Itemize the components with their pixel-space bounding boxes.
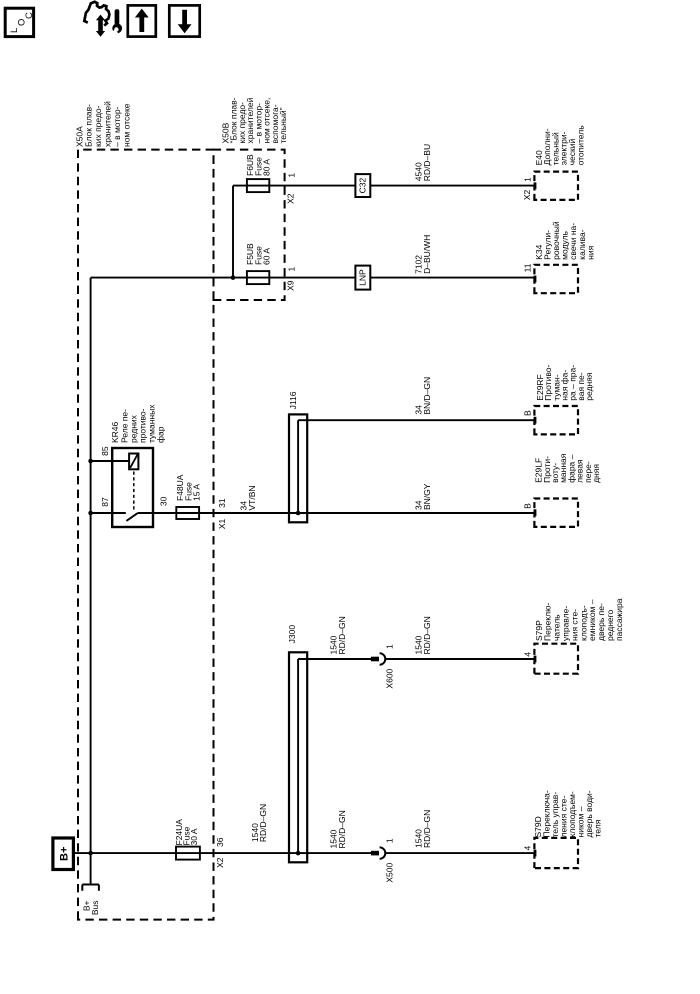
svg-text:X2: X2: [286, 193, 296, 204]
svg-text:Bus: Bus: [90, 901, 100, 916]
svg-text:J116: J116: [288, 391, 298, 409]
svg-text:тельный": тельный": [278, 107, 288, 143]
svg-text:C: C: [24, 12, 35, 19]
svg-text:11: 11: [523, 263, 533, 272]
svg-text:пассажира: пассажира: [614, 598, 624, 641]
svg-text:RD/D–GN: RD/D–GN: [422, 616, 432, 654]
svg-text:1: 1: [286, 267, 296, 272]
svg-text:1: 1: [385, 838, 395, 843]
svg-text:80 A: 80 A: [262, 159, 272, 176]
svg-text:RD/D–GN: RD/D–GN: [422, 810, 432, 848]
svg-text:60 A: 60 A: [262, 248, 272, 265]
svg-text:B: B: [523, 410, 533, 416]
svg-text:RD/D–GN: RD/D–GN: [337, 616, 347, 654]
svg-text:B: B: [523, 503, 533, 509]
svg-text:87: 87: [100, 497, 110, 507]
svg-text:B+: B+: [58, 847, 70, 861]
svg-text:31: 31: [217, 498, 227, 508]
svg-text:ния: ния: [585, 245, 595, 259]
svg-text:D–BU/WH: D–BU/WH: [422, 235, 432, 274]
svg-text:VT/BN: VT/BN: [247, 485, 257, 510]
svg-text:RD/D–GN: RD/D–GN: [258, 804, 268, 842]
svg-text:RD/D–BU: RD/D–BU: [422, 144, 432, 181]
svg-text:L: L: [9, 28, 20, 33]
svg-text:RD/D–GN: RD/D–GN: [337, 810, 347, 848]
svg-text:дняя: дняя: [591, 464, 601, 483]
svg-text:X9: X9: [286, 280, 296, 291]
svg-text:30 A: 30 A: [189, 828, 199, 845]
svg-text:1: 1: [522, 177, 532, 182]
svg-text:1: 1: [286, 173, 296, 178]
svg-text:X500: X500: [385, 863, 395, 883]
svg-text:BN/D–GN: BN/D–GN: [422, 377, 432, 415]
svg-text:X2: X2: [215, 857, 225, 868]
svg-text:C32: C32: [358, 178, 368, 194]
svg-text:X600: X600: [385, 668, 395, 688]
svg-text:теля: теля: [593, 819, 603, 837]
svg-text:BN/GY: BN/GY: [422, 483, 432, 510]
svg-text:36: 36: [215, 837, 225, 847]
svg-text:X2: X2: [522, 189, 532, 200]
svg-text:4: 4: [522, 846, 532, 851]
svg-text:1: 1: [385, 644, 395, 649]
svg-text:ном отсеке: ном отсеке: [121, 103, 131, 147]
svg-text:X1: X1: [217, 518, 227, 529]
svg-text:J300: J300: [287, 625, 297, 644]
svg-text:фар: фар: [156, 426, 166, 443]
svg-text:редняя: редняя: [584, 372, 594, 401]
svg-text:30: 30: [158, 496, 168, 506]
svg-text:85: 85: [100, 446, 110, 456]
svg-text:15 A: 15 A: [192, 484, 202, 501]
svg-text:LNP: LNP: [358, 269, 368, 286]
svg-text:отопитель: отопитель: [575, 125, 585, 166]
svg-text:4: 4: [522, 652, 532, 657]
